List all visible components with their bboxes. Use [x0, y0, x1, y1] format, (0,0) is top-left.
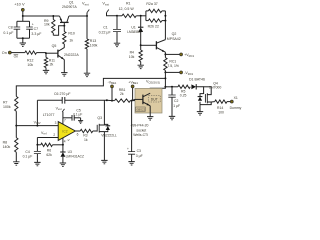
- wire capacitor bottoms: [16, 29, 18, 38]
- ground C4: [34, 162, 40, 165]
- svg-text:RC1: RC1: [169, 60, 176, 64]
- svg-text:R2b 22: R2b 22: [148, 24, 159, 28]
- svg-text:2N2222A: 2N2222A: [64, 53, 79, 57]
- resistor R10: [63, 26, 65, 32]
- terminal +VRC1: [165, 53, 179, 55]
- svg-text:1 μF: 1 μF: [173, 104, 180, 108]
- ground R11: [43, 70, 49, 73]
- svg-text:R2a 37: R2a 37: [146, 2, 157, 6]
- svg-text:U3: U3: [68, 150, 72, 154]
- svg-text:Q1: Q1: [69, 0, 74, 4]
- wire R10 to Q5 collector: [63, 44, 65, 48]
- wire VCE sense rail: [16, 78, 165, 96]
- wire Q3 source to ground: [103, 132, 105, 161]
- ground C3: [128, 162, 134, 165]
- svg-text:C6 270 μF: C6 270 μF: [54, 92, 71, 96]
- svg-text:R14: R14: [217, 106, 223, 110]
- svg-text:+: +: [32, 22, 34, 26]
- svg-text:2k: 2k: [50, 63, 54, 67]
- svg-text:2k: 2k: [120, 92, 124, 96]
- svg-text:0.25: 0.25: [180, 94, 187, 98]
- svg-text:On: On: [14, 55, 19, 59]
- svg-text:Wells-CTI: Wells-CTI: [133, 133, 148, 137]
- svg-text:2: 2: [53, 133, 55, 137]
- svg-text:On: On: [2, 51, 7, 55]
- svg-text:12, 0.5 W: 12, 0.5 W: [119, 7, 135, 11]
- terminal X1 Dummy: [227, 101, 230, 103]
- svg-text:7: 7: [64, 118, 66, 122]
- Q2 emitter: [156, 47, 165, 52]
- resistor R11: [44, 57, 47, 67]
- wire op-amp V- pin 4: [62, 138, 64, 145]
- body diode Q3: [104, 130, 107, 131]
- reference U3 LMV431ACZ: [62, 145, 64, 152]
- ground R4: [138, 65, 144, 68]
- svg-text:62k: 62k: [46, 153, 52, 157]
- capacitor C3 3uF: [131, 101, 133, 152]
- svg-text:0.1 μF: 0.1 μF: [23, 154, 33, 158]
- svg-text:100k: 100k: [90, 43, 98, 47]
- svg-text:3.3 μF: 3.3 μF: [31, 32, 41, 36]
- wire +10V terminal to rail: [22, 11, 24, 16]
- resistor R14 100 dummy load: [211, 101, 215, 103]
- svg-text:10k: 10k: [129, 55, 135, 59]
- svg-text:0.1 μF: 0.1 μF: [73, 113, 82, 117]
- wire Q5 base: [46, 52, 58, 54]
- svg-text:Q3: Q3: [97, 116, 102, 120]
- svg-text:+10 V: +10 V: [14, 1, 25, 6]
- svg-text:-V: -V: [67, 138, 70, 142]
- resistor R3 1k: [80, 129, 93, 132]
- wire RC1 down to VCE sense node: [164, 72, 166, 86]
- svg-text:+: +: [127, 147, 129, 151]
- svg-text:10k: 10k: [27, 63, 33, 67]
- resistor R5 0.25: [178, 85, 190, 88]
- svg-text:VN2222LL: VN2222LL: [101, 134, 117, 138]
- svg-text:1k: 1k: [69, 38, 73, 42]
- svg-text:U1: U1: [131, 25, 135, 29]
- wire On input: [11, 52, 25, 54]
- resistor R13: [86, 16, 88, 39]
- resistor R4: [140, 45, 142, 50]
- svg-text:IC2: IC2: [62, 129, 67, 133]
- svg-text:MPSA42: MPSA42: [167, 37, 181, 41]
- svg-text:Q5: Q5: [52, 44, 57, 48]
- wire R12 to base node: [37, 52, 47, 54]
- svg-text:R12: R12: [27, 59, 33, 63]
- svg-text:2N2907A: 2N2907A: [62, 5, 77, 9]
- svg-text:C3: C3: [137, 149, 141, 153]
- resistor R9: [52, 16, 54, 20]
- svg-text:R1: R1: [126, 2, 131, 6]
- capacitor C4 0.1uF: [36, 145, 38, 152]
- dashed outline DUT label: [149, 95, 161, 102]
- ground C1: [114, 43, 120, 46]
- resistor R12: [25, 51, 37, 54]
- svg-text:100: 100: [218, 110, 224, 114]
- svg-text:Q2: Q2: [172, 32, 177, 36]
- resistor R2b parallel: [164, 11, 166, 21]
- ground Q4: [197, 112, 203, 115]
- resistor R7 100k: [15, 96, 18, 111]
- svg-text:C7: C7: [34, 27, 39, 31]
- ground C5: [78, 121, 83, 124]
- svg-text:C8: C8: [8, 26, 13, 30]
- svg-text:R13: R13: [90, 39, 96, 43]
- svg-text:1k: 1k: [84, 138, 88, 142]
- wire Q1 collector to Vext node: [69, 15, 87, 17]
- ground below C8 C7: [20, 43, 26, 46]
- wire op-amp V+ pin 7: [62, 112, 64, 125]
- wire DUT base into box: [132, 99, 135, 100]
- ground DUT emitter: [147, 117, 153, 120]
- svg-text:LT1077: LT1077: [43, 113, 55, 117]
- wire op-amp output pin 6: [75, 130, 80, 132]
- wire +10V rail: [23, 15, 60, 17]
- ground R13: [84, 73, 90, 76]
- svg-text:7.5, 1%: 7.5, 1%: [167, 64, 179, 68]
- svg-text:socket: socket: [136, 128, 146, 132]
- ground R8: [13, 162, 19, 165]
- wire R6 row: [37, 144, 40, 146]
- svg-text:Dummy: Dummy: [230, 106, 242, 110]
- ground U3: [60, 163, 66, 166]
- wire Q1 base to R9: [53, 26, 64, 36]
- zener gate protection Q4: [199, 102, 201, 105]
- svg-text:6: 6: [77, 133, 79, 137]
- wire C6 row down to inverting node: [36, 100, 38, 125]
- svg-text:DUT: DUT: [151, 97, 158, 101]
- svg-text:X1: X1: [234, 96, 238, 100]
- ground Q3: [101, 160, 107, 163]
- svg-text:100k: 100k: [3, 105, 11, 109]
- capacitor C8: [14, 27, 21, 29]
- svg-text:LMV431ACZ: LMV431ACZ: [66, 155, 84, 159]
- svg-text:0.22 μF: 0.22 μF: [99, 31, 111, 35]
- capacitor C5 0.1uF: [63, 117, 72, 119]
- svg-text:C1: C1: [103, 26, 108, 30]
- svg-text:R10: R10: [68, 32, 74, 36]
- svg-text:LM385BD: LM385BD: [127, 30, 142, 34]
- resistor R8 140k: [15, 126, 17, 138]
- capacitor C1: [116, 15, 118, 17]
- svg-text:10k: 10k: [44, 23, 50, 27]
- resistor R6 62k: [41, 143, 53, 146]
- wire Q5 emitter to ground: [63, 60, 65, 73]
- ground Q5 emitter: [61, 73, 67, 76]
- DUT socket box: [135, 88, 162, 113]
- svg-text:C2: C2: [174, 99, 178, 103]
- wire collector row: [165, 86, 178, 88]
- DUT transistor NPN: [142, 95, 144, 105]
- svg-text:140k: 140k: [3, 145, 11, 149]
- svg-text:C4: C4: [25, 150, 29, 154]
- svg-text:D1 BAT46: D1 BAT46: [189, 77, 205, 81]
- wire C6 row: [37, 99, 62, 101]
- capacitor C2: [171, 86, 173, 88]
- resistor RC1 7.5: [164, 54, 166, 57]
- capacitor C7 polarized: [26, 27, 33, 29]
- wire R11 to ground: [45, 68, 47, 71]
- wire inverting input VINV: [16, 125, 58, 127]
- wire Vref input: [37, 137, 58, 139]
- terminal -VRC1: [165, 71, 179, 73]
- label GBS22 socket tag: [136, 107, 146, 111]
- wire D1 to Q4: [196, 87, 203, 94]
- svg-text:3: 3: [55, 121, 57, 125]
- wire collector into DUT: [150, 87, 165, 93]
- wire Q4 source to ground: [199, 105, 201, 112]
- svg-text:499-P44-20: 499-P44-20: [131, 124, 149, 128]
- wire R2 bar down to Q2 collector: [164, 21, 166, 40]
- svg-text:0.1 μF: 0.1 μF: [3, 31, 13, 35]
- svg-text:GBS22: GBS22: [136, 108, 145, 112]
- wire R13 to ground: [86, 49, 88, 73]
- wire R3 to Q3 gate: [93, 130, 97, 132]
- wire capacitor branch: [22, 16, 24, 21]
- svg-text:VCE(SUS): VCE(SUS): [146, 80, 160, 85]
- wire Q2 base: [141, 44, 157, 46]
- ground C2: [169, 116, 175, 119]
- reference U1 LM385BD: [140, 16, 142, 27]
- svg-text:3 μF: 3 μF: [136, 154, 143, 158]
- svg-text:4: 4: [64, 139, 66, 143]
- wire Q1 base down: [63, 22, 65, 25]
